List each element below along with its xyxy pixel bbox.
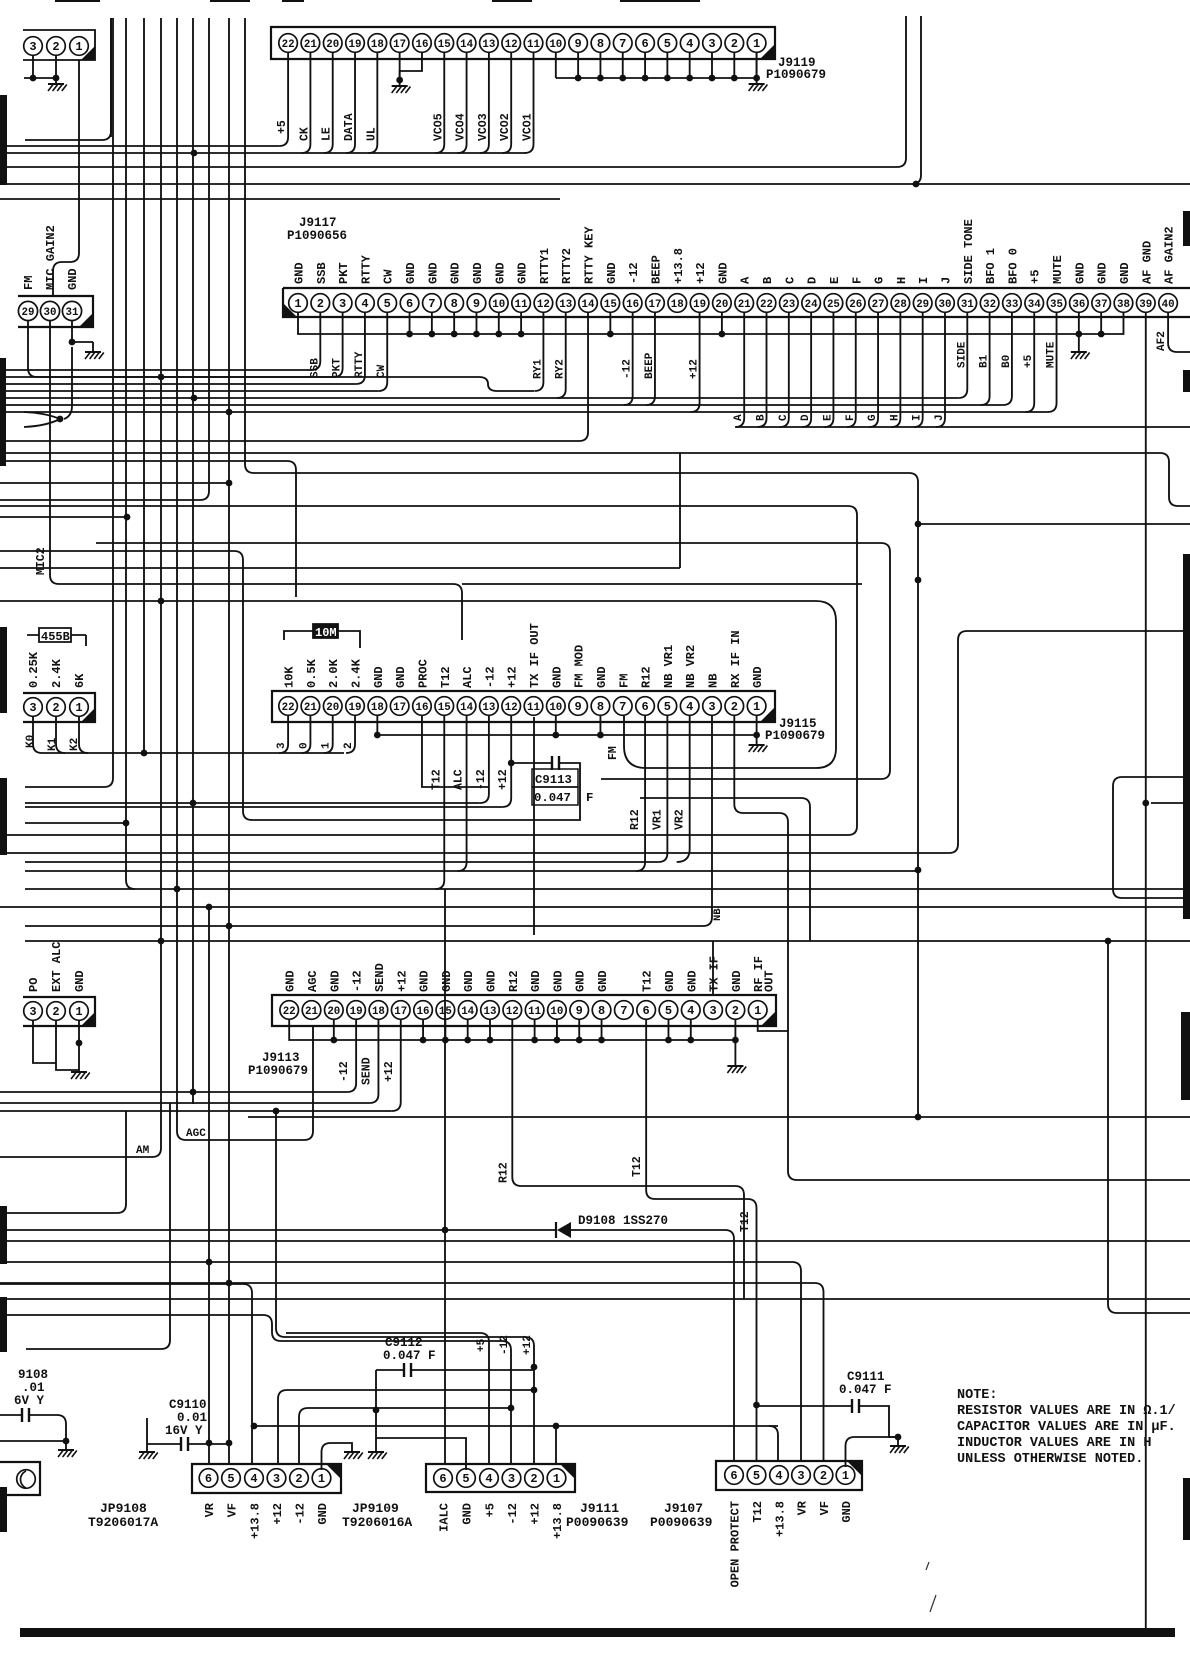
svg-text:1: 1 — [75, 40, 82, 54]
svg-text:MUTE: MUTE — [1051, 255, 1065, 284]
svg-text:GND: GND — [293, 262, 307, 284]
wire vert x193 — [190, 18, 197, 1104]
svg-text:J: J — [939, 277, 953, 284]
svg-text:D: D — [806, 277, 820, 284]
svg-text:UL: UL — [365, 127, 378, 141]
svg-text:ALC: ALC — [461, 666, 475, 688]
svg-text:B: B — [756, 414, 768, 421]
svg-text:+12: +12 — [529, 1503, 543, 1525]
svg-text:1: 1 — [842, 1469, 849, 1483]
svg-text:AF GND: AF GND — [1140, 241, 1154, 284]
svg-text:PROC: PROC — [416, 659, 430, 688]
label T9206017A — [88, 1515, 158, 1530]
capacitor C9113 — [243, 756, 580, 820]
wire x276 down — [276, 1111, 534, 1463]
svg-text:21: 21 — [305, 1006, 318, 1018]
label J9107 — [664, 1501, 703, 1516]
svg-text:+5: +5 — [276, 120, 289, 134]
connector J9107 box — [716, 1461, 862, 1490]
wire bus y167 — [0, 16, 906, 167]
svg-text:GND: GND — [529, 970, 543, 992]
capacitor C9112 — [376, 1363, 533, 1377]
wire I (p29) — [914, 312, 923, 427]
wire bus y153 — [0, 150, 526, 157]
svg-text:-12: -12 — [475, 769, 488, 790]
wire K1 — [56, 716, 65, 753]
svg-text:4: 4 — [687, 1004, 694, 1018]
svg-text:5: 5 — [753, 1469, 760, 1483]
svg-text:19: 19 — [349, 39, 362, 51]
wire vesica — [24, 412, 63, 427]
wire J9119 pin17 down — [396, 52, 403, 83]
svg-text:B1: B1 — [979, 354, 991, 368]
svg-text:RTTY KEY: RTTY KEY — [583, 226, 597, 284]
ground (PO conn) — [71, 1070, 90, 1079]
svg-text:22: 22 — [283, 1006, 296, 1018]
J9119 pins 22-1 — [279, 34, 766, 53]
svg-text:9: 9 — [575, 700, 582, 714]
wire J9119 gnd bus — [556, 52, 760, 81]
wire J9119 pin15 (VCO5) — [435, 52, 444, 153]
ground (JP9109 p1) — [344, 1452, 363, 1459]
ground (C9110) — [139, 1452, 158, 1459]
svg-text:RTTY: RTTY — [354, 351, 366, 378]
label T9206016A — [342, 1515, 412, 1530]
wire J9119 pin19 (DATA) — [346, 52, 355, 153]
label CK — [298, 127, 311, 141]
svg-text:P0090639: P0090639 — [650, 1515, 713, 1530]
svg-text:455B: 455B — [41, 630, 70, 644]
svg-text:+12: +12 — [271, 1503, 285, 1525]
svg-text:+12: +12 — [694, 262, 708, 284]
connector J9113 box — [272, 995, 776, 1026]
wire J9115 p21 — [301, 716, 310, 753]
svg-text:14: 14 — [461, 1006, 474, 1018]
wire x254 (+13.8) — [0, 1284, 252, 1463]
svg-text:R12: R12 — [629, 809, 642, 830]
svg-text:VR: VR — [203, 1502, 217, 1517]
wire vert x126b — [0, 1111, 126, 1213]
svg-text:+5: +5 — [476, 1338, 488, 1352]
ground (J9119 p1) — [749, 78, 768, 91]
svg-text:RTTY: RTTY — [359, 254, 373, 284]
edge mark L2 — [0, 627, 7, 713]
wire bus y391 — [0, 390, 378, 392]
wire y524 right — [918, 523, 1190, 525]
svg-text:RESISTOR VALUES ARE IN Ω.1/: RESISTOR VALUES ARE IN Ω.1/ — [957, 1404, 1176, 1419]
svg-text:6: 6 — [641, 37, 648, 51]
resistor 10M — [284, 624, 360, 648]
wire J9117 gnd bus — [298, 312, 1123, 337]
wire E (p25) — [824, 312, 833, 427]
label SSB (wire) — [309, 358, 321, 378]
wire NB VR1 (J9115) — [658, 716, 667, 862]
label PO — [27, 978, 41, 992]
svg-text:21: 21 — [304, 702, 317, 714]
label BEEP (wire) — [644, 352, 656, 379]
wire bus y1092 — [0, 1091, 347, 1093]
edge mark R1 — [1183, 211, 1190, 246]
svg-text:GND: GND — [461, 1503, 475, 1525]
wire K0 — [33, 716, 42, 753]
wire RTTY2 (RY2) — [557, 312, 566, 398]
wire p31 tail — [64, 347, 72, 419]
svg-text:13: 13 — [482, 39, 495, 51]
label G (wire) — [867, 414, 879, 421]
wire NB (J9115) — [703, 716, 712, 926]
svg-text:.01: .01 — [22, 1381, 45, 1395]
svg-text:4: 4 — [485, 1472, 492, 1486]
label A (wire) — [733, 414, 745, 421]
svg-text:AGC: AGC — [306, 970, 320, 992]
svg-text:16: 16 — [415, 39, 428, 51]
svg-text:8: 8 — [598, 1004, 605, 1018]
label 0.25K — [27, 651, 41, 688]
svg-text:GND: GND — [685, 970, 699, 992]
svg-text:GND: GND — [66, 268, 80, 290]
svg-text:2: 2 — [295, 1472, 302, 1486]
svg-text:6: 6 — [730, 1469, 737, 1483]
svg-text:GND: GND — [663, 970, 677, 992]
label D (wire) — [800, 414, 812, 421]
connector JP9109 box — [192, 1464, 341, 1493]
svg-text:FM MOD: FM MOD — [573, 645, 587, 688]
wire RX IF IN — [734, 716, 788, 1031]
wire F (p26) — [847, 312, 856, 427]
wire J9119 pin14 (VCO4) — [458, 52, 467, 153]
svg-text:T12: T12 — [631, 1156, 644, 1177]
ground (top-left) — [48, 78, 67, 91]
svg-text:R12: R12 — [640, 666, 654, 688]
label JP9108 — [100, 1501, 147, 1516]
svg-text:28: 28 — [894, 299, 907, 311]
label VR1 — [651, 809, 664, 830]
svg-text:I: I — [912, 414, 924, 421]
svg-text:3: 3 — [273, 1472, 280, 1486]
svg-text:14: 14 — [582, 299, 595, 311]
svg-text:GND: GND — [596, 970, 610, 992]
wire bus y398 — [0, 395, 958, 402]
wire bus y184 — [0, 181, 1190, 188]
label 6K — [73, 673, 87, 688]
wire y1408 (-12) — [299, 1408, 511, 1463]
svg-text:SIDE TONE: SIDE TONE — [962, 219, 976, 284]
label NB — [712, 908, 724, 921]
label C9113 — [532, 769, 578, 787]
svg-text:P1090679: P1090679 — [766, 68, 826, 82]
svg-text:5: 5 — [665, 1004, 672, 1018]
svg-text:SSB: SSB — [315, 262, 329, 284]
label C9110 — [165, 1398, 207, 1438]
svg-text:16V Y: 16V Y — [165, 1424, 203, 1438]
stray mark — [926, 1562, 936, 1612]
svg-text:13: 13 — [559, 299, 572, 311]
svg-text:UNLESS OTHERWISE NOTED.: UNLESS OTHERWISE NOTED. — [957, 1452, 1143, 1467]
wire J9119 pin12 (VCO2) — [502, 52, 511, 153]
svg-text:20: 20 — [326, 39, 339, 51]
wire bus y1299 — [0, 1298, 1190, 1300]
label B0 (wire) — [1001, 355, 1013, 368]
svg-text:GND: GND — [471, 262, 485, 284]
svg-text:+12: +12 — [383, 1061, 396, 1082]
label J9119 — [778, 56, 816, 70]
svg-text:VCO4: VCO4 — [455, 113, 468, 141]
svg-text:10: 10 — [492, 299, 505, 311]
wire -12 (J9113) — [347, 1020, 356, 1092]
label -12 (J9113) — [338, 1061, 351, 1082]
capacitor C9108 — [0, 1408, 69, 1450]
wire vert x177 — [177, 18, 313, 1140]
wire vert x229 (VF) — [226, 18, 233, 1464]
wire y1441 — [0, 1440, 66, 1442]
wire D (p24) — [802, 312, 811, 427]
svg-text:AF2: AF2 — [1156, 331, 1168, 351]
svg-text:C9112: C9112 — [385, 1336, 423, 1350]
wire bus y384 — [0, 383, 356, 385]
connector J9119 box — [271, 27, 775, 59]
capacitor C9111 — [757, 1399, 899, 1437]
svg-text:+5: +5 — [484, 1503, 498, 1517]
svg-text:SEND: SEND — [360, 1057, 373, 1085]
svg-text:6: 6 — [641, 700, 648, 714]
connector P (3,2,1) K — [23, 693, 95, 722]
wire PROC — [422, 716, 488, 787]
ground (C9108) — [58, 1450, 77, 1457]
wire vert x209b (VR) — [206, 904, 213, 1464]
svg-text:2.4K: 2.4K — [350, 658, 364, 688]
wire vert x111 — [110, 18, 112, 137]
wire B (p22) — [758, 312, 767, 427]
wire bus y483 — [0, 480, 232, 487]
svg-text:VCO5: VCO5 — [432, 113, 445, 141]
wire y1425 (+13.8) — [251, 1423, 778, 1461]
svg-text:NB: NB — [712, 908, 724, 921]
svg-text:K0: K0 — [25, 735, 37, 748]
svg-text:VCO1: VCO1 — [522, 113, 535, 141]
wire TX IF OUT vert — [533, 717, 535, 935]
svg-text:RX IF IN: RX IF IN — [729, 630, 743, 688]
label D9108 1SS270 — [578, 1214, 668, 1228]
edge mark R4 — [1183, 1478, 1190, 1540]
label P1090656 — [287, 229, 347, 243]
svg-text:17: 17 — [648, 299, 661, 311]
label VCO2 — [499, 113, 512, 141]
svg-text:GND: GND — [516, 262, 530, 284]
J9115 pins — [279, 697, 766, 716]
svg-text:GND: GND — [372, 666, 386, 688]
connector P (3,2,1) top-left — [23, 30, 95, 60]
J9115 pin labels — [283, 623, 766, 688]
svg-text:GND: GND — [316, 1503, 330, 1525]
x756 dot — [753, 1402, 760, 1409]
wire J9119 pin13 (VCO3) — [480, 52, 489, 153]
svg-text:C9110: C9110 — [169, 1398, 207, 1412]
label 0 — [298, 742, 310, 749]
label T12 (J9113) — [631, 1156, 644, 1177]
wire G (p27) — [869, 312, 878, 427]
svg-text:E: E — [822, 414, 834, 421]
svg-text:T12: T12 — [430, 769, 443, 790]
svg-text:TX IF: TX IF — [708, 956, 722, 992]
svg-text:1: 1 — [75, 701, 82, 715]
svg-text:5: 5 — [227, 1472, 234, 1486]
wire p30 down (MIC2) — [50, 321, 862, 640]
label K0 — [25, 735, 37, 748]
wire bus y871 — [25, 870, 918, 872]
svg-text:FM: FM — [617, 674, 631, 688]
svg-text:AGC: AGC — [186, 1128, 206, 1140]
svg-text:7: 7 — [619, 700, 626, 714]
svg-text:H: H — [889, 414, 901, 421]
svg-text:RY1: RY1 — [532, 359, 544, 379]
wire NB VR2 (J9115) — [677, 716, 690, 862]
svg-text:E: E — [828, 277, 842, 284]
wire T12 (J9113) — [646, 1020, 756, 1461]
wire T12 (J9115) — [435, 716, 444, 889]
svg-text:GND: GND — [751, 666, 765, 688]
wire J9117 pin4 (RTTY) — [356, 312, 365, 384]
JP9109 pin labels — [203, 1502, 330, 1539]
svg-text:2.0K: 2.0K — [327, 658, 341, 688]
svg-text:B0: B0 — [1001, 355, 1013, 368]
wire -12 (J9115) — [480, 716, 489, 803]
label +12 (J9115) — [497, 769, 510, 790]
J9117 pin labels — [293, 219, 1177, 284]
svg-text:0: 0 — [298, 742, 310, 749]
svg-text:22: 22 — [760, 299, 773, 311]
svg-text:VR2: VR2 — [674, 809, 687, 830]
label 0.047 F — [532, 787, 593, 805]
svg-text:MUTE: MUTE — [1046, 341, 1058, 368]
label PKT (wire) — [332, 358, 344, 378]
svg-text:18: 18 — [371, 39, 384, 51]
svg-text:24: 24 — [805, 299, 818, 311]
svg-text:-12: -12 — [506, 1503, 520, 1525]
svg-text:11: 11 — [527, 702, 540, 714]
svg-text:T12: T12 — [739, 1211, 752, 1232]
label 3 — [276, 742, 288, 749]
wire PO pins to gnd — [33, 1020, 82, 1070]
wire vert x161 — [160, 18, 162, 1148]
svg-text:37: 37 — [1095, 299, 1108, 311]
label JP9109 — [352, 1501, 399, 1516]
wire J9107 p1 gnd — [846, 1434, 902, 1467]
svg-text:35: 35 — [1050, 299, 1063, 311]
label UL — [365, 127, 378, 141]
connector J9117 box — [283, 288, 1190, 317]
wire +12 (J9113) — [392, 1020, 401, 1111]
wire vert x113 — [25, 18, 113, 787]
svg-text:2.4K: 2.4K — [50, 658, 64, 688]
label -12 (J9115) — [475, 769, 488, 790]
wire staple S3 — [0, 631, 1190, 853]
svg-text:6: 6 — [439, 1472, 446, 1486]
svg-text:4: 4 — [686, 700, 693, 714]
note text — [957, 1388, 1176, 1467]
svg-text:J9117: J9117 — [299, 216, 337, 230]
label +5 (wire) — [1023, 354, 1035, 368]
svg-text:GND: GND — [574, 970, 588, 992]
svg-text:EXT ALC: EXT ALC — [50, 942, 64, 992]
svg-text:CW: CW — [376, 364, 388, 378]
svg-text:PKT: PKT — [337, 262, 351, 284]
svg-text:R12: R12 — [507, 970, 521, 992]
svg-text:TX IF OUT: TX IF OUT — [528, 623, 542, 688]
svg-text:2: 2 — [317, 297, 324, 311]
wire K2 — [79, 716, 88, 753]
wire bus y926 — [25, 923, 703, 930]
wire vert x144 — [141, 18, 148, 756]
wire MUTE (p35) — [1048, 312, 1057, 412]
ground (mic conn) — [85, 352, 104, 359]
svg-text:27: 27 — [872, 299, 885, 311]
wire y803 right — [1142, 800, 1190, 807]
svg-text:17: 17 — [393, 702, 406, 714]
svg-text:GND: GND — [730, 970, 744, 992]
svg-text:10: 10 — [549, 39, 562, 51]
label C (wire) — [778, 414, 790, 421]
svg-text:P1090679: P1090679 — [248, 1064, 308, 1078]
svg-text:+12: +12 — [395, 970, 409, 992]
svg-text:SIDE: SIDE — [956, 341, 968, 368]
svg-text:+13.8: +13.8 — [551, 1503, 565, 1539]
svg-text:GND: GND — [484, 970, 498, 992]
wire p31 gnd — [69, 321, 93, 352]
wire J9115 p22 — [279, 716, 288, 753]
wire x556 down — [555, 1426, 557, 1463]
svg-text:BEEP: BEEP — [644, 352, 656, 379]
svg-text:-12: -12 — [351, 970, 365, 992]
svg-text:D: D — [800, 414, 812, 421]
svg-text:GND: GND — [493, 262, 507, 284]
wire K bus y753 — [42, 752, 344, 754]
svg-text:12: 12 — [506, 1006, 519, 1018]
wire bus y500 — [0, 18, 209, 500]
wire stub x680 — [679, 453, 681, 568]
wire H (p28) — [891, 312, 900, 427]
label C9112 — [383, 1336, 436, 1363]
x534 dots — [531, 1364, 538, 1394]
ground (J9119 p17) — [392, 80, 411, 93]
wire R12 (J9115) — [636, 716, 645, 871]
svg-text:31: 31 — [66, 307, 79, 319]
svg-text:22: 22 — [282, 39, 295, 51]
svg-text:6: 6 — [643, 1004, 650, 1018]
svg-text:NB: NB — [706, 674, 720, 688]
wire J9115 p19 — [346, 716, 355, 753]
wire bus y427 (A-J) — [735, 426, 1190, 428]
svg-text:6: 6 — [205, 1472, 212, 1486]
label VR2 — [674, 809, 687, 830]
wire J9119 pin22 (+5) — [279, 52, 288, 146]
svg-text:JP9108: JP9108 — [100, 1501, 147, 1516]
wire -12 (p16) — [624, 312, 633, 405]
label +12 (J9113) — [383, 1061, 396, 1082]
svg-text:0.047 F: 0.047 F — [383, 1349, 436, 1363]
label VCO1 — [522, 113, 535, 141]
label MIC GAIN2 — [44, 225, 58, 290]
svg-text:29: 29 — [22, 307, 35, 319]
label J9115 — [779, 717, 817, 731]
svg-text:16: 16 — [626, 299, 639, 311]
svg-text:4: 4 — [250, 1472, 257, 1486]
label J9111 — [580, 1501, 619, 1516]
wire bus y907 — [0, 906, 1190, 908]
label RY1 — [532, 359, 544, 379]
wire bus y1111 — [0, 1108, 392, 1115]
wire J (p30) — [936, 312, 945, 427]
svg-text:FM: FM — [607, 746, 620, 760]
